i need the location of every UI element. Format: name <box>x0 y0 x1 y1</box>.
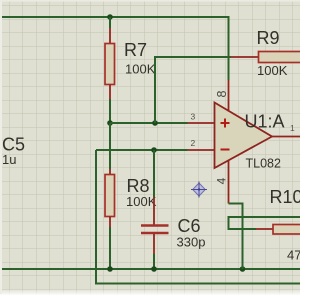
wire node B up and right to R9 <box>155 57 231 123</box>
wire top rail V+ <box>2 17 229 80</box>
resistor R8 pin bottom (red) <box>109 217 111 228</box>
wire pin 4 to ground rail <box>229 204 243 270</box>
svg-text:R10: R10 <box>270 187 301 207</box>
resistor R8 body <box>105 175 115 217</box>
svg-text:100K: 100K <box>126 194 157 209</box>
resistor R7 pin bottom (red) <box>109 85 111 100</box>
wire R7 top <box>109 17 111 28</box>
wire node C left corner down to C5 and rail 2 <box>96 150 300 284</box>
svg-text:3: 3 <box>191 112 196 122</box>
capacitor C6 top plate <box>141 224 169 227</box>
node C junction dot (C6 top) <box>151 147 157 153</box>
svg-text:R9: R9 <box>257 28 280 48</box>
resistor R7 body <box>105 44 115 85</box>
svg-text:330p: 330p <box>177 235 206 250</box>
op-amp U1:A body <box>215 103 273 169</box>
svg-text:4: 4 <box>215 177 229 184</box>
capacitor C6 pin bottom (red) <box>153 234 155 254</box>
wire pin2 node C horizontal <box>96 149 188 151</box>
resistor R1 pin top (red) <box>109 28 111 44</box>
capacitor C6 bottom plate <box>141 232 169 235</box>
op-amp minus symbol <box>221 149 230 151</box>
wire R10 feedback route <box>229 217 301 229</box>
node B junction dot <box>152 120 158 126</box>
wire R7 bottom to node A <box>109 99 111 123</box>
junction dot rail1/R8 <box>107 266 113 272</box>
resistor R9 body <box>259 52 302 63</box>
svg-text:TL082: TL082 <box>246 157 281 171</box>
resistor R10 body <box>273 225 302 235</box>
wire node A down to R8 <box>109 123 111 169</box>
op-amp pin 4 stub (red) <box>228 160 230 203</box>
op-amp pin 8 stub (red) <box>228 80 230 112</box>
op-amp U1 pin 2 stub (red) <box>188 149 215 151</box>
op-amp plus symbol <box>221 119 230 128</box>
resistor R8 pin top (red) <box>109 169 111 175</box>
resistor R9 pin left (red) <box>231 56 259 58</box>
svg-text:1: 1 <box>290 123 295 133</box>
capacitor C6 pin top (red) <box>153 197 155 225</box>
svg-text:2: 2 <box>191 138 196 148</box>
op-amp U1 pin 3 stub (red) <box>188 122 215 124</box>
svg-text:47K: 47K <box>287 248 300 263</box>
svg-text:C6: C6 <box>178 216 201 236</box>
resistor R10 pin left (red) <box>256 228 273 230</box>
ground rail 1 <box>2 268 300 270</box>
wire R8 bottom to ground rail <box>109 227 111 269</box>
svg-text:U1:A: U1:A <box>245 112 285 132</box>
wire C6 bottom to ground rail <box>153 254 155 269</box>
svg-text:100K: 100K <box>257 63 288 78</box>
node A junction dot (R7 bottom) <box>107 120 113 126</box>
origin marker (blue) <box>191 182 207 198</box>
svg-text:1u: 1u <box>2 152 16 167</box>
svg-text:8: 8 <box>215 90 229 97</box>
junction dot rail1/pin4 path <box>240 266 246 272</box>
wire node A to node B (to pin3) <box>110 122 188 124</box>
svg-text:R8: R8 <box>127 176 150 196</box>
junction dot top rail / R7 <box>107 14 113 20</box>
wire node C down to C6 <box>153 150 155 197</box>
op-amp pin 1 output stub (red) <box>272 136 300 138</box>
junction dot rail1/C6 <box>151 266 157 272</box>
svg-text:100K: 100K <box>125 62 156 77</box>
svg-text:R7: R7 <box>124 40 147 60</box>
